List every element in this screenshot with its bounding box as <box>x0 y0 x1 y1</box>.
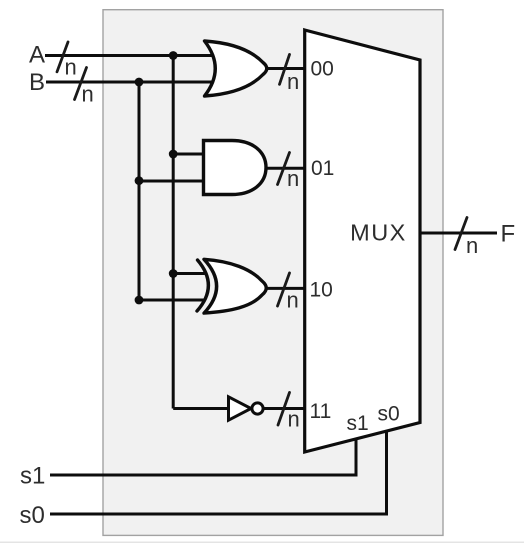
slash bus F <box>455 218 467 250</box>
svg-text:n: n <box>287 166 299 191</box>
or-gate G1 <box>205 41 267 96</box>
svg-text:11: 11 <box>310 400 332 423</box>
node junction AND top <box>169 150 178 159</box>
svg-text:s1: s1 <box>20 463 45 490</box>
wire XOR output <box>261 287 305 290</box>
svg-text:n: n <box>287 288 299 313</box>
wire OR output <box>266 67 305 70</box>
slash bus NOT out <box>278 393 290 426</box>
gray panel <box>103 10 443 536</box>
node junction XOR top <box>169 269 178 278</box>
svg-text:s0: s0 <box>20 502 45 529</box>
slash bus B <box>75 68 87 100</box>
xor-gate G3 body <box>204 259 266 313</box>
faint screenshot edge line <box>0 542 524 544</box>
wire B horizontal <box>46 81 212 84</box>
wire F output <box>420 232 497 235</box>
svg-text:n: n <box>288 407 300 432</box>
node junction A <box>169 51 178 60</box>
wire NOT input <box>173 407 229 410</box>
svg-text:s0: s0 <box>378 403 400 426</box>
wire s1 <box>50 438 356 475</box>
svg-text:00: 00 <box>311 58 334 81</box>
svg-text:10: 10 <box>310 279 333 302</box>
svg-text:01: 01 <box>311 157 334 180</box>
node junction XOR bottom <box>135 296 144 305</box>
not-gate G4 triangle <box>229 397 252 420</box>
svg-text:A: A <box>29 42 45 69</box>
svg-text:n: n <box>65 55 77 80</box>
wire AND top input <box>173 153 206 156</box>
svg-text:F: F <box>501 221 516 248</box>
svg-text:n: n <box>287 69 299 94</box>
svg-text:n: n <box>82 82 94 107</box>
mux U1 trapezoid <box>305 30 420 452</box>
slash bus XOR out <box>278 273 290 306</box>
wire AND bottom input <box>139 180 206 183</box>
not-gate G4 bubble <box>252 403 263 414</box>
wire s0 <box>50 431 387 515</box>
slash bus OR out <box>280 55 290 85</box>
wire AND output <box>263 167 305 170</box>
and-gate G2 <box>204 141 267 195</box>
wire NOT output <box>264 407 305 410</box>
node junction AND bottom <box>135 176 144 185</box>
node junction B <box>135 78 144 87</box>
wire XOR bottom input <box>139 299 205 302</box>
wire A horizontal <box>45 54 212 57</box>
wire A vertical branch <box>172 56 175 409</box>
wire B vertical branch <box>138 82 141 300</box>
wire XOR top input <box>173 272 204 275</box>
svg-text:MUX: MUX <box>350 220 407 246</box>
xor-gate G3 back arc <box>197 260 208 311</box>
svg-text:s1: s1 <box>347 412 369 435</box>
slash bus AND out <box>278 153 290 185</box>
svg-text:B: B <box>29 69 45 96</box>
slash bus A <box>57 42 68 72</box>
svg-text:n: n <box>466 233 478 258</box>
